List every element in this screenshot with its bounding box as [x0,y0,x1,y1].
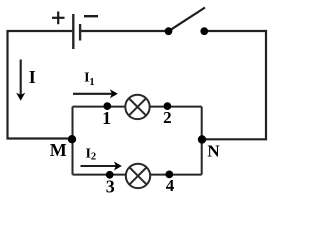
svg-text:M: M [50,140,67,160]
svg-text:2: 2 [163,108,172,127]
svg-text:1: 1 [89,77,94,88]
svg-text:4: 4 [166,176,175,195]
svg-text:I: I [29,67,36,87]
svg-text:1: 1 [102,108,111,128]
svg-text:N: N [207,142,220,161]
svg-text:3: 3 [106,177,115,197]
svg-text:2: 2 [91,151,96,162]
